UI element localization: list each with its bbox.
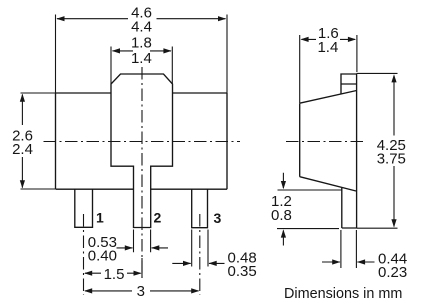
dim 4.6/4.4 extension lines bbox=[56, 15, 228, 94]
svg-text:1: 1 bbox=[96, 209, 104, 225]
side view lead bbox=[342, 188, 357, 229]
svg-text:0.8: 0.8 bbox=[271, 207, 292, 224]
dim 4.25/3.75 line bbox=[393, 76, 395, 227]
svg-text:1.5: 1.5 bbox=[104, 266, 125, 283]
dim 0.44/0.23 extension lines bbox=[341, 230, 357, 268]
svg-text:2: 2 bbox=[154, 209, 162, 225]
dim 1.2/0.8 arrows shafts bbox=[282, 173, 284, 246]
arrowheads dim 0.44/0.23 bbox=[332, 259, 340, 264]
dim 1.8/1.4 line bbox=[113, 50, 172, 52]
dim 1.2/0.8 extension lines bbox=[277, 190, 342, 229]
dim 0.53/0.40 extension lines bbox=[134, 230, 151, 253]
svg-text:4.4: 4.4 bbox=[131, 19, 152, 36]
svg-text:Dimensions in mm: Dimensions in mm bbox=[284, 286, 402, 302]
side view right edge bbox=[356, 74, 358, 228]
svg-text:0.35: 0.35 bbox=[228, 263, 257, 280]
lead 3 bbox=[192, 189, 208, 228]
arrowheads dim 4.6/4.4 bbox=[56, 16, 64, 21]
dim 0.48/0.35 arrow tails bbox=[172, 262, 224, 264]
arrowheads dim 0.53/0.40 bbox=[125, 245, 133, 250]
dim 1.6/1.4 extension lines bbox=[300, 35, 357, 103]
arrowheads dim 0.48/0.35 bbox=[183, 261, 191, 266]
dim 1.6/1.4 line bbox=[302, 38, 356, 40]
dim 2.6/2.4 line bbox=[21, 95, 23, 188]
side view body outline bbox=[300, 91, 357, 192]
dim 2.6/2.4 extension lines bbox=[21, 93, 56, 189]
centerline vertical front view bbox=[44, 67, 364, 295]
side view tab bbox=[341, 74, 357, 94]
arrowheads dim 1.5 bbox=[84, 271, 92, 276]
svg-text:3: 3 bbox=[137, 283, 145, 300]
dim 1.5 line bbox=[85, 258, 142, 278]
front view tab with chamfers and center stem bbox=[111, 74, 173, 228]
svg-text:1.4: 1.4 bbox=[317, 39, 338, 56]
svg-text:3: 3 bbox=[214, 210, 222, 226]
arrowheads dim 4.25/3.75 bbox=[391, 74, 396, 82]
lead 1 center extension line bbox=[83, 214, 85, 295]
arrowheads dim 1.2/0.8 bbox=[281, 181, 286, 189]
svg-text:3.75: 3.75 bbox=[377, 151, 406, 168]
dim 0.48/0.35 extension lines bbox=[192, 230, 208, 267]
arrowheads dim 3 bbox=[84, 288, 92, 293]
centerline horizontal side view bbox=[286, 141, 363, 143]
svg-text:0.40: 0.40 bbox=[88, 247, 117, 264]
dim 4.25/3.75 extension lines bbox=[357, 73, 398, 228]
arrowheads dim 2.6/2.4 bbox=[20, 94, 25, 102]
dim 0.44/0.23 arrow tails bbox=[322, 261, 375, 263]
dim 3 line bbox=[85, 290, 199, 292]
arrowheads dim 1.8/1.4 bbox=[112, 48, 120, 53]
lead 1 bbox=[75, 189, 93, 227]
centerline horizontal front view bbox=[44, 141, 241, 143]
dim 4.6/4.4 line bbox=[57, 18, 226, 20]
svg-text:2.4: 2.4 bbox=[12, 141, 33, 158]
dim 1.8/1.4 extension lines bbox=[111, 47, 172, 85]
svg-text:0.23: 0.23 bbox=[378, 264, 407, 281]
lead 3 center extension line bbox=[199, 214, 201, 295]
arrowheads dim 1.6/1.4 bbox=[300, 37, 308, 42]
dim 0.53/0.40 arrow tails bbox=[117, 247, 169, 249]
front view body outline bbox=[56, 93, 228, 189]
svg-text:1.4: 1.4 bbox=[131, 50, 152, 67]
